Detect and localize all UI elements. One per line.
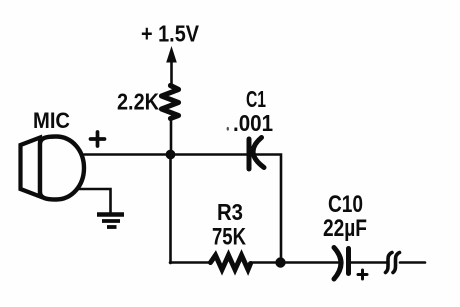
node B junction dot [275, 257, 285, 267]
capacitor C1 ref label [246, 86, 266, 112]
wire node A down to bottom rail [169, 154, 172, 263]
wire output stub after break [400, 261, 425, 264]
wire R3 to C10 through node B [251, 261, 338, 264]
microphone MIC label [33, 108, 70, 133]
svg-text:R3: R3 [217, 199, 243, 225]
capacitor C10 ref label [328, 191, 363, 218]
capacitor C1 value label .001 [227, 110, 274, 136]
svg-text:+ 1.5V: + 1.5V [141, 21, 200, 47]
microphone MIC cone [21, 138, 41, 197]
ground [97, 215, 124, 228]
capacitor C1 [249, 138, 264, 170]
svg-text:C10: C10 [328, 191, 363, 218]
svg-text:22µF: 22µF [323, 215, 367, 242]
node A junction dot [166, 150, 176, 160]
wire mic output to node A [84, 153, 168, 156]
svg-text:.001: .001 [233, 110, 273, 136]
wire C1 to right corner and down to node B [254, 155, 281, 263]
resistor R3 value label 75K [212, 224, 247, 251]
resistor 2.2K value label [117, 89, 159, 115]
wire mic bottom to ground [78, 189, 111, 215]
resistor 2.2K [162, 86, 179, 119]
resistor R3 [211, 255, 251, 269]
wire resistor 2.2K bottom to node A [170, 119, 173, 155]
svg-text:75K: 75K [212, 224, 247, 251]
C10 + polarity mark [358, 270, 367, 279]
power +1.5V arrow [166, 46, 177, 84]
svg-text:MIC: MIC [33, 108, 70, 133]
capacitor C10 [334, 248, 349, 280]
microphone MIC body [40, 137, 84, 200]
line break symbol [386, 253, 400, 273]
wire bottom rail left segment [170, 261, 209, 264]
svg-text:C1: C1 [246, 86, 266, 112]
svg-text:2.2K: 2.2K [117, 89, 159, 115]
capacitor C10 value label 22uF [323, 215, 367, 242]
power +1.5V label [141, 21, 200, 47]
wire node A to C1 [170, 153, 247, 156]
resistor R3 ref label [217, 199, 243, 225]
wire C10 to line break [350, 261, 386, 264]
mic output + polarity mark [91, 132, 105, 146]
